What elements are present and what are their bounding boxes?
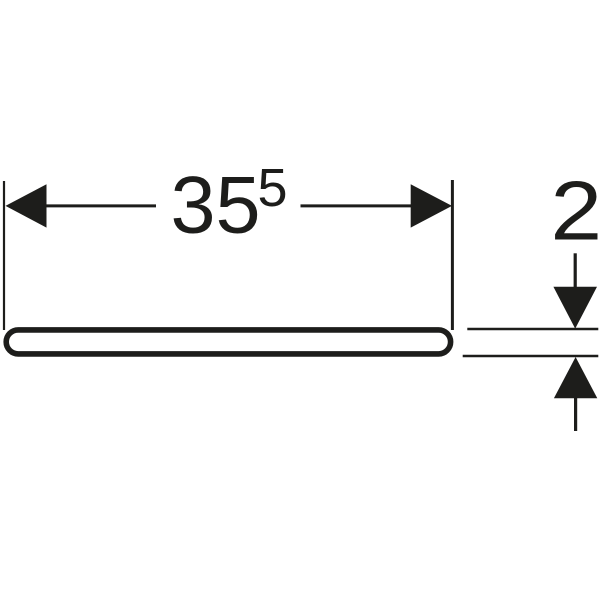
svg-text:5: 5 — [258, 158, 288, 218]
svg-text:35: 35 — [171, 161, 261, 251]
svg-text:2: 2 — [550, 164, 600, 257]
